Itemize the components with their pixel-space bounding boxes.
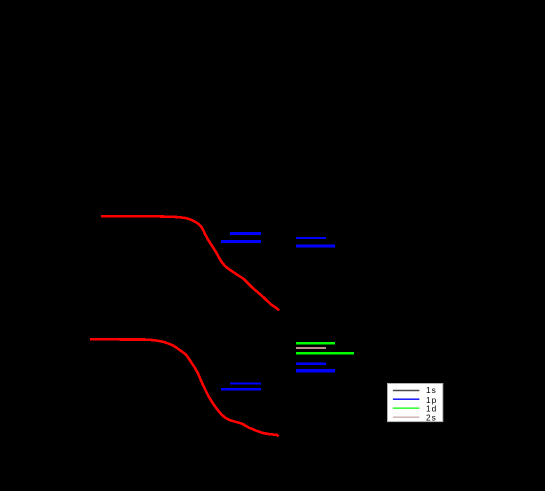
blue level 1p upper-left a: [230, 232, 261, 235]
blue level 1p upper-right b: [296, 245, 335, 248]
blue level 1p lower-left b: [221, 388, 261, 391]
legend 2s sample: [393, 416, 420, 418]
green level 1d middle a: [296, 342, 335, 345]
svg-text:1s: 1s: [426, 385, 437, 395]
blue level 1p upper-left b: [221, 240, 261, 243]
legend 1d sample: [393, 407, 420, 409]
blue level 1p lower-left a: [230, 382, 261, 384]
blue level 1p middle b: [296, 369, 335, 373]
legend 1p sample: [393, 398, 420, 400]
legend box: [388, 384, 443, 422]
svg-text:2s: 2s: [426, 412, 437, 422]
blue level 1p upper-right a: [296, 237, 326, 239]
green level 1d long: [296, 352, 354, 355]
legend 1s sample: [393, 390, 420, 392]
blue level 1p middle a: [296, 363, 326, 365]
red curve upper: [101, 216, 279, 310]
rosybrown level 2s: [296, 347, 326, 349]
red curve lower: [90, 339, 279, 436]
